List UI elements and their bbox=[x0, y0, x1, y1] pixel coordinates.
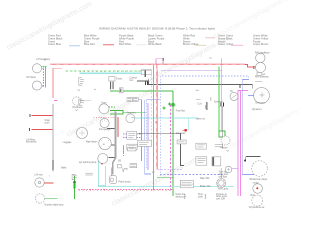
svg-text:Red White: Red White bbox=[119, 42, 132, 46]
svg-text:Ign warning lamp: Ign warning lamp bbox=[79, 161, 97, 164]
svg-text:Number plate lamp: Number plate lamp bbox=[45, 203, 65, 206]
svg-text:wiring col: wiring col bbox=[176, 195, 186, 198]
svg-text:Turn Lamp: Turn Lamp bbox=[218, 187, 230, 190]
svg-text:conn: conn bbox=[45, 122, 51, 124]
svg-text:Green Brown: Green Brown bbox=[253, 42, 269, 46]
svg-text:Coil: Coil bbox=[198, 104, 202, 106]
svg-text:}: } bbox=[204, 194, 206, 200]
svg-text:push: push bbox=[198, 196, 204, 198]
svg-text:MAROON: MAROON bbox=[196, 118, 206, 121]
svg-text:Windscreen wiper: Windscreen wiper bbox=[250, 178, 268, 181]
svg-text:Generator: Generator bbox=[255, 101, 265, 104]
svg-text:conn: conn bbox=[196, 99, 200, 101]
svg-text:c: c bbox=[186, 63, 187, 65]
svg-text:R/H sidelamp: R/H sidelamp bbox=[255, 77, 269, 79]
svg-text:Fuse Box: Fuse Box bbox=[176, 111, 186, 113]
svg-text:Main 30A: Main 30A bbox=[200, 177, 210, 180]
svg-text:(dynamo): (dynamo) bbox=[252, 109, 262, 111]
svg-text:over 30A: over 30A bbox=[216, 197, 226, 200]
svg-text:Horn: Horn bbox=[102, 101, 108, 104]
svg-text:Cold start: Cold start bbox=[176, 132, 186, 135]
svg-text:R/H lamp: R/H lamp bbox=[27, 77, 37, 79]
svg-text:sw: sw bbox=[262, 74, 265, 76]
svg-text:Green Blue: Green Blue bbox=[48, 42, 62, 46]
svg-text:Petrol pump: Petrol pump bbox=[118, 181, 131, 184]
svg-text:directional: directional bbox=[26, 141, 37, 144]
svg-text:Main Beam: Main Beam bbox=[86, 142, 98, 144]
svg-text:Oil pressure sw: Oil pressure sw bbox=[249, 206, 265, 209]
svg-text:Horn: Horn bbox=[250, 194, 256, 197]
svg-text:WIRING DIAGRAM: AUSTIN HEALEY: WIRING DIAGRAM: AUSTIN HEALEY 3000 MK II… bbox=[99, 26, 216, 30]
svg-text:motor: motor bbox=[253, 181, 259, 184]
svg-text:R/H headlamp: R/H headlamp bbox=[255, 52, 270, 54]
svg-text:Flasher: Flasher bbox=[220, 146, 228, 149]
svg-text:Solenoid: Solenoid bbox=[214, 101, 224, 103]
svg-text:Luggage: Luggage bbox=[63, 142, 73, 144]
svg-text:Fuses: Fuses bbox=[116, 78, 123, 80]
svg-text:White Black: White Black bbox=[148, 42, 162, 46]
svg-text:L/H rear: L/H rear bbox=[35, 173, 43, 176]
svg-text:Distributor: Distributor bbox=[73, 106, 84, 109]
svg-text:unit 8dw: unit 8dw bbox=[219, 175, 228, 178]
svg-text:Blue Red: Blue Red bbox=[84, 42, 95, 46]
svg-text:Brake 10A: Brake 10A bbox=[200, 185, 211, 188]
svg-text:Make: Make bbox=[61, 167, 67, 169]
svg-text:Fuel gauge: Fuel gauge bbox=[99, 129, 111, 131]
svg-text:Ammeter: Ammeter bbox=[127, 112, 136, 115]
